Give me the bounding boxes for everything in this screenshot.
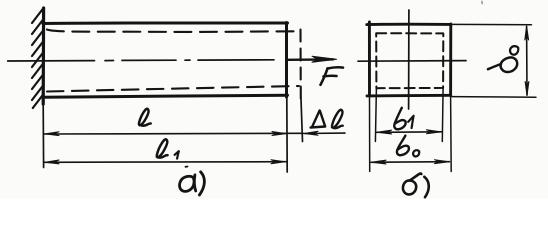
- label b1 : b: [394, 108, 405, 129]
- bar top edge: [43, 21, 288, 25]
- outer square right edge: [449, 24, 452, 95]
- label F: [321, 67, 344, 85]
- label b0 rotated: b stem: [488, 64, 501, 69]
- wall hatching: [32, 8, 44, 108]
- arrowhead left (b0): [372, 160, 387, 164]
- arrowhead left (l1): [45, 160, 59, 164]
- label l1 (script ell): [157, 139, 168, 157]
- label l1 subscript 1: [175, 151, 179, 158]
- arrowhead right (l1): [271, 160, 285, 164]
- label a) parenthesis: [199, 172, 204, 195]
- delta-l extension line: [301, 99, 303, 142]
- inner dashed square: [376, 33, 443, 88]
- label b) parenthesis: [424, 177, 428, 197]
- label b0 (below) : o subscript: [413, 150, 419, 156]
- dashed deformed top edge: [47, 30, 299, 32]
- outer square left edge: [368, 22, 371, 96]
- faint speck top right: [481, 2, 484, 4]
- horizontal centerline: [358, 60, 466, 63]
- label b0 (below) : b: [397, 136, 409, 156]
- right extension line (bar end): [286, 97, 288, 172]
- label delta-l : ell: [332, 110, 343, 128]
- delta-l arrowhead: [304, 131, 318, 135]
- outer square bottom edge: [367, 94, 451, 97]
- bottom extension line to right dim: [452, 96, 536, 99]
- force arrow F shaft: [287, 58, 333, 61]
- arrowhead down: [525, 82, 529, 96]
- b0 lower extension lines: [369, 96, 371, 172]
- label b0 rotated: o subscript: [510, 46, 518, 55]
- bar right edge: [285, 23, 288, 98]
- dimension line l: [44, 132, 303, 135]
- b1 dimension line: [377, 131, 442, 134]
- label delta-l : triangle: [311, 111, 326, 128]
- label a) cyrillic a: [180, 176, 195, 191]
- arrowhead left (l): [45, 132, 59, 136]
- outer square top edge: [367, 23, 451, 26]
- vertical centerline: [408, 10, 410, 109]
- dashed deformed bottom edge: [47, 86, 299, 92]
- small speck above a): [186, 166, 188, 168]
- label b) cyrillic b: [403, 174, 421, 195]
- top extension line to right dim: [452, 23, 532, 25]
- arrowhead up: [525, 26, 529, 40]
- arrowhead right (b1): [427, 130, 442, 134]
- dashed deformed right edge: [299, 30, 301, 100]
- right vertical dimension line b0: [526, 27, 528, 96]
- arrowhead right (l): [272, 132, 286, 136]
- delta-l arrow from right: [304, 132, 345, 134]
- b0 dimension line: [371, 161, 450, 164]
- label b0 rotated: b bowl: [501, 57, 518, 72]
- dimension line l1: [44, 161, 286, 164]
- arrowhead left (b1): [377, 130, 392, 134]
- force arrowhead: [312, 56, 337, 62]
- arrowhead right (b0): [435, 160, 450, 164]
- centerline axis (dash-dot): [8, 60, 274, 61]
- b1 extension lines: [375, 88, 376, 141]
- bar bottom edge: [43, 95, 288, 97]
- wall fixed support line: [42, 8, 46, 104]
- label l (script ell): [139, 109, 151, 126]
- label b1 : subscript 1: [408, 116, 413, 128]
- left extension line (below wall): [42, 104, 44, 168]
